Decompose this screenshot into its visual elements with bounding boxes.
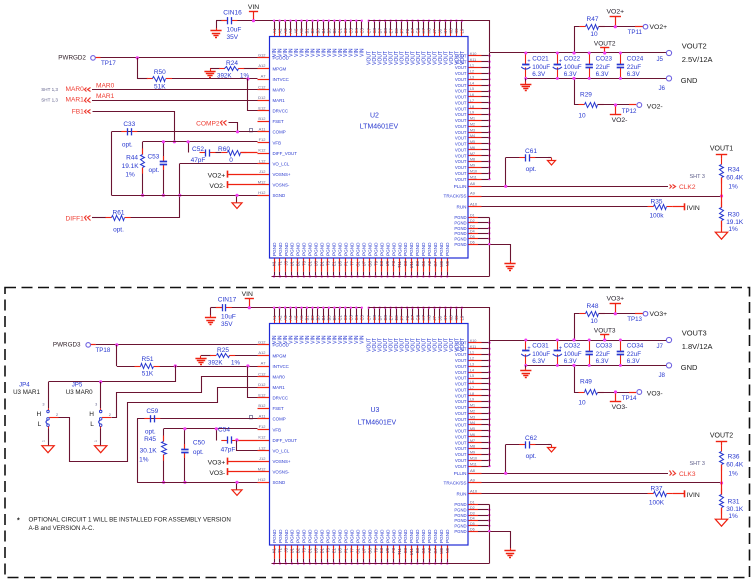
svg-text:R30: R30 [728,212,740,219]
U2 bottom pin PGND U11 [411,259,413,272]
wire PLLIN to CLK [482,186,669,188]
svg-text:L6: L6 [470,93,474,97]
svg-text:VOUT: VOUT [455,142,467,147]
U3 bottom pin PGND N9 [447,546,449,559]
svg-text:B3: B3 [316,28,321,34]
svg-text:SHT 1,3: SHT 1,3 [41,98,58,103]
resistor R29 [579,104,585,106]
svg-text:RUN: RUN [457,205,467,210]
svg-text:E3: E3 [379,260,384,266]
node VIN flag [249,299,251,308]
ground JP4 [42,446,54,453]
svg-text:L4: L4 [470,368,474,372]
wire gnd bus to R49 [575,366,579,393]
svg-text:G7: G7 [410,314,415,320]
U3 bottom pin PGND G7 [435,546,437,559]
svg-text:D5: D5 [470,235,475,239]
svg-text:MPGM: MPGM [273,66,287,71]
wire PGND to ground U2 [490,245,511,263]
svg-text:A2: A2 [427,547,432,553]
svg-text:C1: C1 [338,27,343,33]
svg-text:PGND: PGND [433,242,438,256]
U3 pin L9 VOUT [469,401,482,403]
svg-text:D1: D1 [320,260,325,266]
svg-text:K7: K7 [443,315,448,321]
svg-text:M5: M5 [470,427,475,431]
capacitor CO31 [525,340,527,351]
svg-text:A5: A5 [294,28,299,34]
U2 top pin VIN B4 [323,21,325,29]
svg-text:1%: 1% [125,172,135,179]
svg-text:VO3-: VO3- [209,470,225,477]
svg-text:B2: B2 [310,315,315,321]
svg-text:M10: M10 [470,456,477,460]
U2 bottom pin PGND T5 [327,259,329,272]
U3 bottom pin PGND T9 [375,546,377,559]
svg-text:INTVCC: INTVCC [273,77,289,82]
svg-text:E7: E7 [388,28,393,34]
svg-text:PGND: PGND [320,242,325,256]
svg-text:M2: M2 [470,409,475,413]
U3 bottom pin PGND E1 [333,546,335,559]
ground divider [715,519,727,526]
ground PGND U2 [510,261,512,264]
svg-text:PGND: PGND [454,502,466,507]
svg-text:CIN16: CIN16 [223,10,242,17]
svg-text:A7: A7 [261,361,267,366]
U2 top pin VOUT J7 [434,21,436,29]
U3 top pin VIN C1 [339,308,341,316]
U3 top pin VIN C3 [350,308,352,316]
U3 bottom pin PGND U9 [387,546,389,559]
svg-text:L5: L5 [470,374,474,378]
svg-text:F1: F1 [343,547,348,553]
U2 pin K10 VOUT [469,55,482,57]
U3 top pin VOUT K8 [450,308,452,316]
U2 top pin VOUT F7 [401,21,403,29]
wire PGOOD [91,344,96,346]
svg-text:R34: R34 [728,167,740,174]
svg-text:G8: G8 [416,27,421,33]
wire VO_LCL [180,163,258,165]
svg-text:C33: C33 [123,121,135,128]
svg-text:PGND: PGND [454,513,466,518]
U3 bottom pin PGND D1 [321,546,323,559]
U2 pin L12 VO_LCL [258,163,270,165]
svg-text:B4: B4 [321,315,326,321]
svg-text:T3: T3 [302,260,307,266]
svg-text:J12: J12 [259,456,266,461]
svg-text:VO3-: VO3- [647,391,663,398]
wire JP5 pin3 drop [100,382,102,405]
U2 pin M5 VOUT [469,143,482,145]
svg-text:C59: C59 [146,408,158,415]
resistor R30 [721,196,723,208]
svg-text:C53: C53 [147,154,159,161]
svg-text:VOUT: VOUT [455,65,467,70]
svg-text:H12: H12 [258,190,266,195]
U2 bottom pin PGND C3 [405,259,407,272]
U3 top pin VOUT H8 [428,308,430,316]
svg-text:VFB: VFB [273,427,282,432]
wire PGOOD to R pullup [116,345,118,366]
svg-text:R29: R29 [580,92,592,99]
svg-text:TP11: TP11 [628,29,643,36]
svg-text:U2: U2 [370,112,379,119]
wire VOUT top bus U2 [369,21,490,53]
svg-text:CO32: CO32 [564,342,581,349]
svg-text:CO31: CO31 [532,342,549,349]
U2 top pin VIN C2 [345,21,347,29]
svg-text:B5: B5 [327,315,332,321]
svg-text:G12: G12 [258,53,266,58]
U2 FSET no-connect mark [250,129,253,132]
U3 top pin VOUT L9 [461,308,463,316]
U2 pin G12 PGOOD [258,57,270,59]
svg-text:B1: B1 [305,315,310,321]
U2 bottom pin PGND A2 [429,259,431,272]
capacitor CIN17 [216,307,222,309]
svg-text:DRVCC: DRVCC [273,109,289,114]
svg-text:VOUT: VOUT [455,118,467,123]
svg-text:C3: C3 [349,314,354,320]
svg-text:PGND: PGND [421,242,426,256]
U2 top pin VOUT D7 [379,21,381,29]
U3 pin D6 PGND right [469,531,479,533]
svg-text:VOSNS-: VOSNS- [273,470,290,475]
svg-text:PGND: PGND [290,242,295,256]
test point TP17 [91,56,96,61]
wire INTVCC to DRVCC [246,364,249,367]
svg-text:M3: M3 [470,415,475,419]
U3 pin L8 VOUT [469,395,482,397]
svg-text:E7: E7 [388,315,393,321]
U3 top pin VOUT G7 [412,308,414,316]
U2 bottom pin PGND H1 [274,259,276,272]
U2 pin F12 VFB [258,142,270,144]
svg-text:PGND: PGND [314,529,319,543]
svg-text:VOUT2: VOUT2 [682,41,707,50]
U3 pin M2 VOUT [469,413,482,415]
U2 pin M1 VOUT [469,120,482,122]
svg-text:C3: C3 [403,260,408,266]
svg-text:COMP: COMP [273,417,286,422]
wire COMP cap to SGND [111,132,113,196]
U2 pin L3 VOUT [469,79,482,81]
svg-text:opt.: opt. [113,227,124,234]
svg-text:VOUT: VOUT [455,458,467,463]
svg-text:PGND: PGND [409,529,414,543]
U2 bottom pin PGND F3 [393,259,395,272]
U3 top pin VOUT K9 [456,308,458,316]
svg-text:PGND: PGND [284,242,289,256]
svg-text:PGND: PGND [385,242,390,256]
svg-text:U11: U11 [409,260,414,268]
svg-text:DIFF1: DIFF1 [65,215,84,222]
svg-text:T1: T1 [278,547,283,553]
U2 pin L8 VOUT [469,108,482,110]
svg-text:PGND: PGND [439,242,444,256]
U2 top pin VIN B5 [328,21,330,29]
svg-text:60.4K: 60.4K [726,462,744,469]
svg-text:C2: C2 [343,27,348,33]
wire INTVCC to jumpers [49,366,176,382]
svg-text:VOUT: VOUT [455,147,467,152]
U3 top pin VOUT K7 [445,308,447,316]
U2 pin C12 MAR0 [258,89,270,91]
svg-text:M3: M3 [470,128,475,132]
svg-text:OPTIONAL CIRCUIT 1 WILL BE INS: OPTIONAL CIRCUIT 1 WILL BE INSTALLED FOR… [29,517,231,524]
wire output caps ground bus [526,78,667,80]
U3 pin M10 VOUT [469,460,482,462]
svg-text:PGND: PGND [361,529,366,543]
svg-text:1%: 1% [231,360,240,367]
svg-text:PGND: PGND [403,242,408,256]
svg-text:CO24: CO24 [627,55,644,62]
svg-text:A-B and VERSION A-C.: A-B and VERSION A-C. [29,525,95,532]
ground SGND [236,195,238,203]
svg-text:L9: L9 [460,28,465,33]
svg-text:L7: L7 [470,386,474,390]
U2 pin M2 VOUT [469,126,482,128]
test point TP11 [643,24,648,29]
svg-text:PGND: PGND [367,529,372,543]
svg-text:6.3V: 6.3V [564,358,578,365]
svg-text:R31: R31 [728,499,740,506]
wire MAR0 [92,89,258,91]
U3 pin F12 VFB [258,429,270,431]
svg-text:PGND: PGND [385,529,390,543]
svg-text:A1: A1 [272,315,277,321]
svg-text:T9: T9 [373,547,378,553]
svg-text:K8: K8 [449,315,454,321]
U3 top pin VIN B5 [328,308,330,316]
svg-text:PGND: PGND [296,242,301,256]
wire PGND bottom bus U2 [272,276,490,278]
resistor R61 [92,217,106,219]
wire VO_LCL to SGND to R61 [179,164,181,218]
svg-text:A2: A2 [277,28,282,34]
svg-text:G5: G5 [421,260,426,266]
U2 pin A7 INTVCC [258,79,270,81]
svg-text:L6: L6 [470,380,474,384]
svg-text:VOSNS+: VOSNS+ [273,459,291,464]
svg-text:VOUT2: VOUT2 [594,41,616,48]
svg-text:VOUT: VOUT [455,177,467,182]
svg-text:L4: L4 [470,81,474,85]
svg-text:U3 MAR0: U3 MAR0 [66,389,93,396]
resistor R36 [721,465,723,483]
U3 pin A7 INTVCC [258,366,270,368]
svg-text:T3: T3 [302,547,307,553]
svg-text:VIN: VIN [360,335,366,344]
ground divider [715,232,727,239]
svg-text:U3: U3 [371,407,380,414]
svg-text:D4: D4 [470,230,475,234]
svg-text:VOUT: VOUT [455,153,467,158]
svg-text:VOUT: VOUT [455,429,467,434]
svg-text:L12: L12 [259,445,266,450]
U2 top pin VOUT L9 [461,21,463,29]
svg-text:PGND: PGND [272,242,277,256]
U3 bottom pin PGND C1 [309,546,311,559]
U3 bottom pin PGND U11 [411,546,413,559]
svg-text:VOUT: VOUT [455,54,467,59]
svg-text:C1: C1 [338,314,343,320]
svg-text:PGND: PGND [391,242,396,256]
U3 pin M8 VOUT [469,448,482,450]
svg-text:U5: U5 [337,260,342,266]
wire SGND [112,195,258,197]
svg-text:G1: G1 [355,547,360,553]
svg-text:PGND: PGND [427,529,432,543]
U2 bottom pin PGND G3 [369,259,371,272]
svg-text:+: + [527,345,530,351]
U3 pin L2 VOUT [469,360,482,362]
svg-text:IVIN: IVIN [687,205,700,212]
svg-text:PGND: PGND [454,215,466,220]
svg-text:VO2-: VO2- [647,104,663,111]
svg-text:L3: L3 [470,363,474,367]
capacitor C50 [184,429,186,450]
svg-text:IVIN: IVIN [687,492,700,499]
svg-text:60.4K: 60.4K [726,175,744,182]
svg-text:C2: C2 [343,314,348,320]
svg-text:VOUT: VOUT [455,446,467,451]
svg-text:C50: C50 [193,440,205,447]
U3 pin D12 MAR1 [258,387,270,389]
U2 top pin VIN A2 [279,21,281,29]
svg-text:C5: C5 [360,314,365,320]
capacitor CIN16 [221,20,227,22]
svg-text:6.3V: 6.3V [564,71,578,78]
svg-text:U7: U7 [361,260,366,266]
U3 top pin VOUT G8 [418,308,420,316]
svg-text:L7: L7 [470,99,474,103]
svg-text:D3: D3 [470,224,475,228]
wire VFB [143,141,258,143]
svg-text:C7: C7 [366,27,371,33]
resistor R45 [163,429,165,442]
svg-text:M9: M9 [439,547,444,553]
U2 top pin VIN A6 [301,21,303,29]
U3 bottom pin PGND U3 [315,546,317,559]
ground CIN input [210,308,212,316]
svg-text:A1: A1 [272,28,277,34]
U2 top pin VOUT G7 [412,21,414,29]
U2 top pin VIN C3 [350,21,352,29]
U2 bottom pin PGND T9 [375,259,377,272]
ground output caps [525,365,527,369]
U3 top pin VIN B2 [312,308,314,316]
U3 bottom pin PGND B3 [417,546,419,559]
svg-text:A4: A4 [288,28,293,34]
wire PLLIN to CLK [482,473,669,475]
svg-text:MPGM: MPGM [273,353,287,358]
svg-text:PGND: PGND [290,529,295,543]
U2 pin L6 VOUT [469,96,482,98]
svg-text:3: 3 [42,403,44,407]
svg-text:51K: 51K [142,370,154,377]
svg-text:D6: D6 [470,527,475,531]
U2 pin L2 VOUT [469,73,482,75]
svg-text:T11: T11 [397,260,402,268]
svg-text:PGND: PGND [379,242,384,256]
svg-text:R36: R36 [728,454,740,461]
svg-text:E3: E3 [379,547,384,553]
U2 bottom pin PGND D1 [321,259,323,272]
svg-text:CLK2: CLK2 [679,184,696,191]
U2 bottom pin PGND T7 [351,259,353,272]
U3 top pin VOUT D7 [379,308,381,316]
wire VOUT top bus U3 [369,308,490,341]
U2 top pin VOUT C8 [374,21,376,29]
capacitor CO21 [525,53,527,64]
svg-text:VOUT: VOUT [455,165,467,170]
U2 pin M6 VOUT [469,149,482,151]
capacitor C52 [200,152,206,154]
svg-text:A2: A2 [277,315,282,321]
svg-text:C61: C61 [525,148,537,155]
svg-text:MAR0: MAR0 [65,86,84,93]
U3 top pin VOUT E7 [390,308,392,316]
svg-text:1: 1 [42,440,46,442]
wire VOUT to R47 [575,27,580,53]
capacitor C62 [506,444,526,446]
U3 top pin VIN A1 [274,308,276,316]
svg-text:G12: G12 [258,340,266,345]
U2 pin D12 MAR1 [258,100,270,102]
svg-text:K7: K7 [443,28,448,34]
svg-text:TRACK/SS: TRACK/SS [444,481,467,486]
svg-text:B2: B2 [296,260,301,266]
svg-text:1%: 1% [728,226,738,233]
svg-text:TP18: TP18 [96,347,111,354]
svg-text:MAR1: MAR1 [273,98,286,103]
svg-text:VOUT: VOUT [455,89,467,94]
U3 pin A10 RUN [469,493,482,495]
svg-text:VOUT: VOUT [455,434,467,439]
svg-text:H: H [36,411,41,418]
svg-text:SHT 1,3: SHT 1,3 [41,87,58,92]
svg-text:U9: U9 [385,547,390,553]
wire SGND [137,482,257,484]
wire DIFF_VOUT to VO_LCL [235,438,238,441]
svg-text:M9: M9 [470,164,475,168]
svg-text:R25: R25 [217,347,229,354]
svg-text:A8: A8 [470,468,476,473]
U3 top pin VOUT D8 [385,308,387,316]
wire VFB [164,428,258,430]
resistor R51 [117,366,136,368]
U2 bottom pin PGND T3 [303,259,305,272]
svg-text:19.1K: 19.1K [726,219,744,226]
jumper JP4 [48,405,50,409]
U3 bottom pin PGND B2 [297,546,299,559]
svg-text:M12: M12 [258,179,267,184]
U3 pin M6 VOUT [469,436,482,438]
svg-text:LTM4601EV: LTM4601EV [360,123,399,130]
svg-text:U7: U7 [361,547,366,553]
svg-text:1%: 1% [728,184,738,191]
svg-text:PGND: PGND [344,529,349,543]
wire PGND right bus U2 [489,217,491,276]
svg-text:SHT 3: SHT 3 [690,174,706,180]
svg-text:D6: D6 [470,240,475,244]
svg-text:+: + [527,58,530,64]
svg-text:PLLIN: PLLIN [454,471,467,476]
svg-text:L: L [90,421,94,428]
